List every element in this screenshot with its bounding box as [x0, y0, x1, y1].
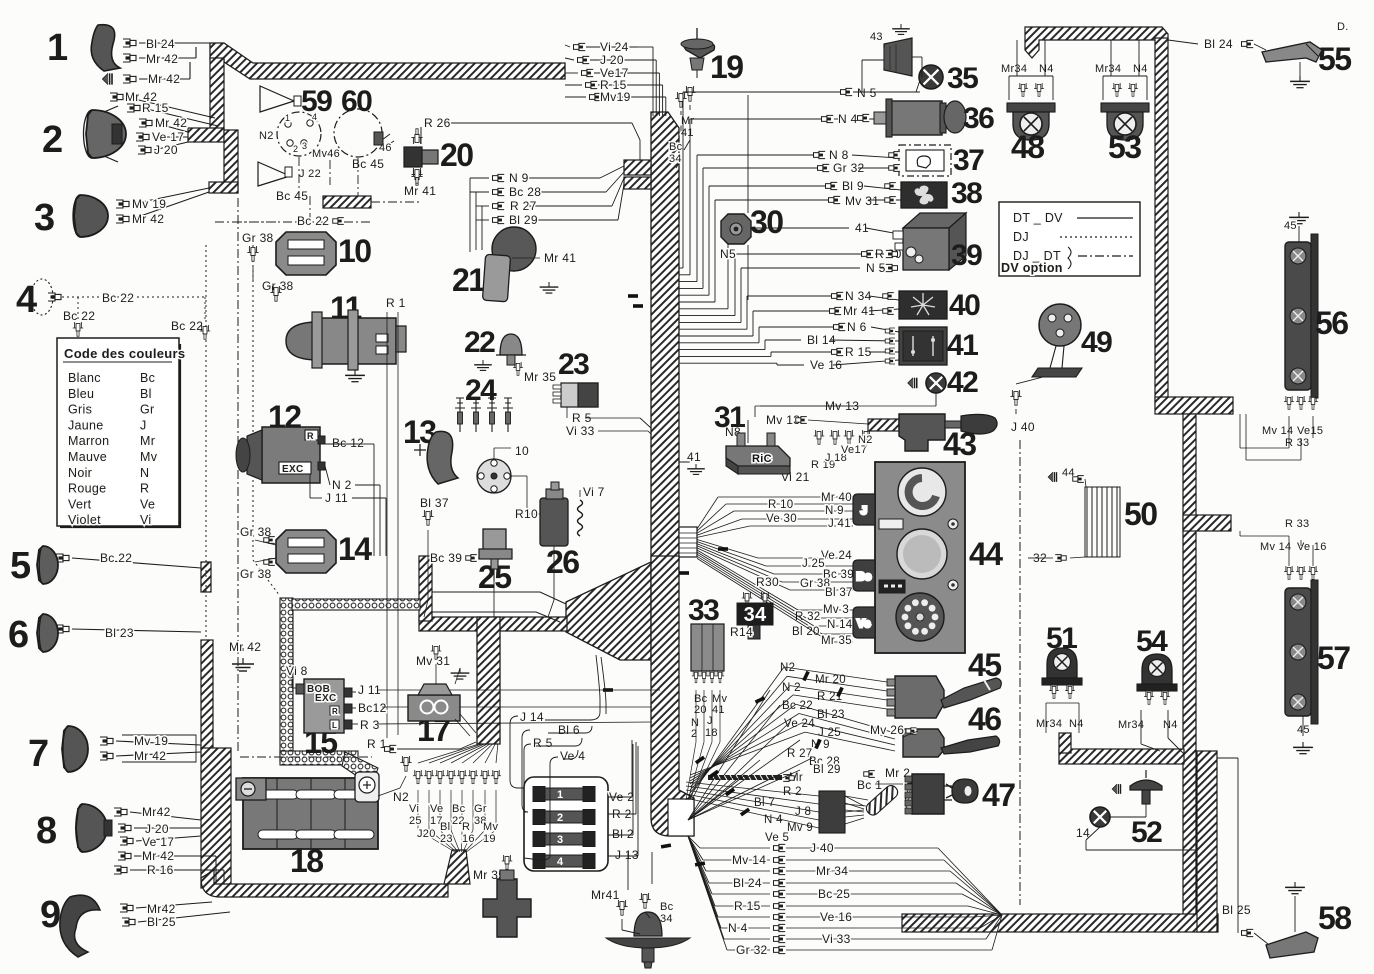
- svg-text:7: 7: [28, 733, 48, 775]
- svg-text:EXC: EXC: [315, 693, 336, 704]
- svg-text:Mr41: Mr41: [591, 888, 620, 902]
- svg-text:Bc 45: Bc 45: [352, 157, 384, 171]
- svg-text:Bc 22: Bc 22: [171, 319, 203, 333]
- svg-text:Mr 42: Mr 42: [142, 849, 174, 863]
- svg-text:Jaune: Jaune: [68, 418, 104, 432]
- svg-text:50: 50: [1124, 496, 1157, 532]
- svg-text:N4: N4: [1163, 719, 1178, 731]
- svg-text:9: 9: [40, 894, 60, 936]
- svg-text:Gr 38: Gr 38: [240, 567, 272, 581]
- svg-text:Mr 42: Mr 42: [155, 116, 187, 130]
- svg-text:Bl 29: Bl 29: [509, 213, 538, 227]
- svg-text:Bl 9: Bl 9: [842, 179, 864, 193]
- svg-text:36: 36: [963, 102, 994, 135]
- svg-text:10: 10: [338, 233, 371, 269]
- svg-text:N 9: N 9: [825, 505, 844, 517]
- svg-text:Mv 3: Mv 3: [823, 604, 849, 616]
- svg-text:N 6: N 6: [847, 320, 867, 334]
- svg-text:Bl 6: Bl 6: [558, 723, 580, 737]
- svg-text:19: 19: [483, 833, 496, 845]
- svg-text:38: 38: [951, 177, 982, 210]
- svg-text:42: 42: [947, 366, 978, 399]
- svg-text:Mv19: Mv19: [600, 90, 631, 104]
- svg-text:Vi 8: Vi 8: [286, 664, 308, 678]
- svg-text:Bc: Bc: [669, 141, 683, 153]
- svg-text:R30: R30: [756, 575, 779, 589]
- svg-text:R 15: R 15: [734, 899, 761, 913]
- svg-text:45: 45: [1284, 220, 1297, 232]
- svg-text:Ve 30: Ve 30: [766, 513, 797, 525]
- svg-text:2: 2: [293, 144, 298, 154]
- svg-text:Bc 22: Bc 22: [782, 700, 813, 712]
- svg-text:R: R: [462, 821, 470, 833]
- svg-text:Bc12: Bc12: [358, 701, 387, 715]
- svg-text:R 3: R 3: [360, 718, 380, 732]
- svg-text:23: 23: [440, 833, 453, 845]
- svg-text:43: 43: [870, 31, 883, 43]
- svg-text:53: 53: [1108, 129, 1141, 165]
- svg-text:DV option: DV option: [1001, 261, 1063, 275]
- svg-text:2: 2: [557, 812, 563, 824]
- svg-text:1: 1: [47, 27, 68, 69]
- svg-text:Mv 31: Mv 31: [416, 654, 450, 668]
- svg-text:Bl 24: Bl 24: [1204, 37, 1233, 51]
- svg-text:N 8: N 8: [829, 148, 849, 162]
- svg-text:Violet: Violet: [68, 513, 101, 527]
- svg-text:Ve: Ve: [430, 803, 443, 815]
- svg-text:30: 30: [750, 204, 783, 240]
- svg-text:R: R: [140, 482, 149, 496]
- svg-text:N 4: N 4: [728, 921, 748, 935]
- svg-text:Bl 29: Bl 29: [813, 764, 841, 776]
- svg-text:Bleu: Bleu: [68, 387, 94, 401]
- svg-text:N 5: N 5: [857, 86, 877, 100]
- svg-text:4: 4: [16, 279, 37, 321]
- svg-text:Code des couleurs: Code des couleurs: [64, 346, 185, 361]
- svg-text:55: 55: [1318, 41, 1351, 77]
- svg-text:Bl 25: Bl 25: [147, 915, 176, 929]
- svg-text:DJ: DJ: [1013, 230, 1029, 244]
- svg-text:Vi: Vi: [409, 803, 419, 815]
- svg-text:N2: N2: [393, 790, 409, 804]
- svg-text:Ve 24: Ve 24: [821, 550, 852, 562]
- svg-text:Ve15: Ve15: [1297, 425, 1323, 437]
- svg-text:19: 19: [710, 49, 743, 85]
- svg-text:J 40: J 40: [1011, 420, 1035, 434]
- svg-text:Bc 39: Bc 39: [430, 551, 462, 565]
- svg-text:R 1: R 1: [386, 296, 406, 310]
- svg-text:Bc: Bc: [660, 901, 674, 913]
- svg-text:Mv46: Mv46: [312, 148, 340, 160]
- svg-text:Mr34: Mr34: [1036, 718, 1062, 730]
- svg-text:Bc 28: Bc 28: [509, 185, 541, 199]
- svg-text:Noir: Noir: [68, 466, 92, 480]
- svg-text:Bc: Bc: [857, 571, 872, 583]
- svg-text:J: J: [861, 505, 867, 517]
- svg-text:Rouge: Rouge: [68, 482, 106, 496]
- svg-text:41: 41: [712, 704, 725, 716]
- svg-text:39: 39: [951, 239, 982, 272]
- svg-text:N2: N2: [259, 130, 274, 142]
- svg-text:N4: N4: [1039, 63, 1054, 75]
- svg-text:Mr 42: Mr 42: [146, 52, 178, 66]
- svg-text:58: 58: [1318, 900, 1351, 936]
- svg-text:Vi 33: Vi 33: [822, 932, 851, 946]
- svg-text:J 22: J 22: [299, 168, 321, 180]
- svg-text:Bc 22: Bc 22: [102, 291, 134, 305]
- svg-text:26: 26: [546, 544, 579, 580]
- svg-text:Mr34: Mr34: [1095, 63, 1121, 75]
- svg-text:J 40: J 40: [810, 841, 834, 855]
- svg-text:Gr 38: Gr 38: [242, 231, 274, 245]
- svg-text:Bc 22: Bc 22: [297, 214, 329, 228]
- svg-text:L: L: [332, 721, 337, 730]
- svg-text:Ve 16: Ve 16: [820, 910, 852, 924]
- svg-text:N2: N2: [858, 434, 873, 446]
- svg-text:EXC: EXC: [282, 464, 303, 475]
- svg-text:J 20: J 20: [154, 143, 178, 157]
- svg-text:Mv: Mv: [483, 821, 498, 833]
- svg-text:R 5: R 5: [533, 736, 553, 750]
- svg-text:DT _ DV: DT _ DV: [1013, 211, 1063, 225]
- svg-text:J 11: J 11: [325, 491, 348, 505]
- svg-text:Vi 7: Vi 7: [583, 485, 605, 499]
- svg-text:57: 57: [1317, 640, 1350, 676]
- svg-text:Vi: Vi: [140, 513, 152, 527]
- svg-text:N 9: N 9: [509, 171, 529, 185]
- svg-text:J 14: J 14: [520, 710, 544, 724]
- svg-text:Mr: Mr: [140, 434, 155, 448]
- svg-text:34: 34: [744, 604, 767, 626]
- svg-text:N4: N4: [1133, 63, 1148, 75]
- svg-text:Mr42: Mr42: [147, 902, 176, 916]
- svg-text:N 2: N 2: [782, 682, 801, 694]
- svg-text:Mr 35: Mr 35: [821, 635, 852, 647]
- svg-text:Mr 41: Mr 41: [544, 251, 576, 265]
- svg-text:R 1: R 1: [367, 737, 387, 751]
- svg-text:14: 14: [338, 531, 372, 567]
- svg-text:N 4: N 4: [764, 814, 783, 826]
- svg-text:N 4: N 4: [838, 112, 858, 126]
- svg-text:J 8: J 8: [795, 806, 811, 818]
- svg-text:R 10: R 10: [768, 499, 794, 511]
- svg-text:34: 34: [660, 913, 673, 925]
- svg-text:Mv: Mv: [140, 450, 158, 464]
- svg-text:10: 10: [515, 444, 529, 458]
- svg-text:Mr 41: Mr 41: [404, 184, 436, 198]
- svg-text:2: 2: [691, 728, 697, 740]
- svg-text:J20: J20: [417, 828, 436, 840]
- svg-text:J 41: J 41: [828, 518, 851, 530]
- svg-text:J 20: J 20: [600, 53, 624, 67]
- svg-text:5: 5: [10, 545, 31, 587]
- svg-text:Bl 37: Bl 37: [420, 496, 449, 510]
- svg-text:16: 16: [462, 833, 475, 845]
- svg-text:Mv 14: Mv 14: [1260, 541, 1291, 553]
- svg-text:Bc 1: Bc 1: [857, 778, 882, 792]
- svg-text:Bl 25: Bl 25: [1222, 903, 1251, 917]
- svg-text:23: 23: [558, 348, 589, 381]
- svg-text:R 15: R 15: [845, 345, 872, 359]
- svg-text:Mv 26: Mv 26: [870, 723, 904, 737]
- svg-text:Mr34: Mr34: [1118, 719, 1144, 731]
- svg-text:46: 46: [968, 701, 1001, 737]
- svg-text:N 2: N 2: [332, 478, 352, 492]
- svg-text:J 11: J 11: [358, 683, 381, 697]
- svg-text:N4: N4: [1069, 718, 1084, 730]
- svg-text:D.: D.: [1337, 21, 1349, 33]
- svg-text:Mv 19: Mv 19: [134, 734, 168, 748]
- svg-text:Marron: Marron: [68, 434, 109, 448]
- svg-text:Ve 17: Ve 17: [142, 835, 174, 849]
- svg-text:31: 31: [714, 401, 745, 434]
- svg-text:Mr42: Mr42: [142, 805, 171, 819]
- svg-text:Ve 5: Ve 5: [765, 832, 789, 844]
- svg-text:49: 49: [1081, 326, 1112, 359]
- svg-text:52: 52: [1131, 816, 1162, 849]
- svg-text:4: 4: [557, 856, 564, 868]
- svg-text:2: 2: [42, 119, 62, 161]
- svg-text:Ve: Ve: [857, 618, 870, 630]
- svg-text:R 16: R 16: [147, 863, 174, 877]
- svg-text:47: 47: [982, 777, 1015, 813]
- svg-text:4: 4: [312, 112, 317, 122]
- svg-text:54: 54: [1136, 625, 1168, 658]
- svg-text:Gr 38: Gr 38: [240, 525, 272, 539]
- svg-text:R 15: R 15: [142, 101, 169, 115]
- svg-text:51: 51: [1046, 622, 1077, 655]
- svg-text:Ve 16: Ve 16: [1297, 541, 1327, 553]
- svg-text:N: N: [140, 466, 149, 480]
- svg-text:Vi 24: Vi 24: [600, 40, 629, 54]
- svg-text:8: 8: [36, 810, 56, 852]
- svg-text:Bc: Bc: [452, 803, 466, 815]
- svg-text:Blanc: Blanc: [68, 371, 101, 385]
- svg-text:3: 3: [557, 834, 563, 846]
- svg-text:Mv 13: Mv 13: [766, 413, 800, 427]
- svg-text:33: 33: [688, 594, 719, 627]
- svg-text:Bl 37: Bl 37: [825, 587, 853, 599]
- svg-text:18: 18: [705, 727, 718, 739]
- svg-text:Bc 25: Bc 25: [818, 887, 850, 901]
- svg-text:40: 40: [949, 289, 980, 322]
- svg-text:Gris: Gris: [68, 403, 92, 417]
- svg-text:Bl 24: Bl 24: [146, 37, 175, 51]
- svg-text:R 2: R 2: [783, 786, 802, 798]
- svg-text:Gr: Gr: [474, 803, 487, 815]
- svg-text:N 14: N 14: [827, 619, 853, 631]
- svg-text:Mauve: Mauve: [68, 450, 107, 464]
- svg-text:RiC: RiC: [752, 453, 772, 465]
- svg-text:J 13: J 13: [615, 848, 639, 862]
- svg-text:35: 35: [947, 62, 978, 95]
- svg-text:37: 37: [953, 144, 984, 177]
- svg-text:J 25: J 25: [802, 558, 825, 570]
- svg-text:Mr34: Mr34: [1001, 63, 1027, 75]
- svg-text:56: 56: [1315, 305, 1348, 341]
- svg-text:Mr 34: Mr 34: [816, 864, 848, 878]
- svg-text:41: 41: [687, 450, 701, 464]
- svg-text:34: 34: [669, 153, 682, 165]
- svg-text:Vert: Vert: [68, 497, 92, 511]
- svg-text:Bl 2: Bl 2: [612, 827, 634, 841]
- svg-text:1: 1: [285, 113, 290, 123]
- svg-text:Bc 22: Bc 22: [63, 309, 95, 323]
- svg-text:Bl 23: Bl 23: [105, 626, 134, 640]
- svg-text:Ve: Ve: [140, 497, 155, 511]
- svg-text:25: 25: [409, 815, 422, 827]
- svg-text:R: R: [307, 431, 314, 441]
- svg-text:Mr 42: Mr 42: [148, 72, 180, 86]
- svg-text:Mv 19: Mv 19: [132, 197, 166, 211]
- svg-text:R14: R14: [730, 625, 753, 639]
- svg-text:Mv 31: Mv 31: [845, 194, 879, 208]
- svg-text:Bc 45: Bc 45: [276, 189, 308, 203]
- svg-text:Mr 35: Mr 35: [524, 370, 556, 384]
- svg-text:Bl 24: Bl 24: [733, 876, 762, 890]
- svg-text:J 20: J 20: [145, 822, 169, 836]
- svg-text:3: 3: [302, 141, 307, 151]
- svg-text:R 27: R 27: [510, 199, 537, 213]
- svg-text:22: 22: [464, 326, 495, 359]
- svg-text:N 34: N 34: [845, 289, 872, 303]
- svg-text:Bl: Bl: [440, 821, 450, 833]
- svg-text:48: 48: [1011, 129, 1044, 165]
- svg-text:J: J: [140, 418, 147, 432]
- svg-text:Bc 22: Bc 22: [100, 551, 132, 565]
- svg-text:6: 6: [8, 614, 28, 656]
- svg-text:20: 20: [440, 137, 473, 173]
- svg-text:Bl: Bl: [140, 387, 152, 401]
- svg-text:Bl 20: Bl 20: [792, 626, 820, 638]
- svg-text:44: 44: [969, 536, 1003, 572]
- svg-text:3: 3: [34, 197, 54, 239]
- svg-text:Vi 33: Vi 33: [566, 424, 595, 438]
- svg-text:21: 21: [452, 262, 485, 298]
- svg-text:Mr 42: Mr 42: [229, 640, 261, 654]
- svg-text:R 26: R 26: [424, 116, 451, 130]
- svg-text:Mr 42: Mr 42: [134, 749, 166, 763]
- svg-text:Mr 40: Mr 40: [821, 492, 852, 504]
- svg-text:1: 1: [557, 789, 563, 801]
- svg-text:R10: R10: [515, 507, 538, 521]
- svg-text:R: R: [332, 707, 338, 716]
- svg-text:Gr 32: Gr 32: [736, 943, 768, 957]
- svg-text:Mr 42: Mr 42: [132, 212, 164, 226]
- svg-text:41: 41: [947, 329, 978, 362]
- svg-text:Ve 17: Ve 17: [152, 130, 184, 144]
- svg-text:Bc 12: Bc 12: [332, 436, 364, 450]
- svg-text:Bc: Bc: [140, 371, 155, 385]
- svg-text:N5: N5: [720, 247, 736, 261]
- svg-text:R 33: R 33: [1285, 518, 1309, 530]
- svg-text:Mv 14: Mv 14: [732, 853, 766, 867]
- svg-text:Gr: Gr: [140, 403, 155, 417]
- svg-text:Ve 4: Ve 4: [560, 749, 585, 763]
